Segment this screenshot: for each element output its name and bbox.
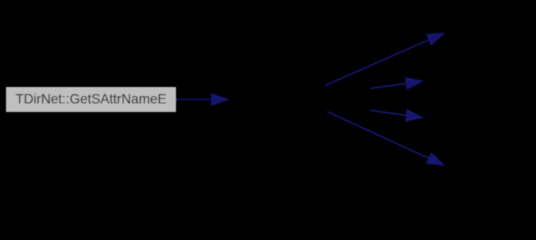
edge root to middle node — [176, 94, 228, 106]
node TDirNet::GetSAttrNameE (root node) — [6, 87, 176, 112]
edge middle node to callee 2 (shallow up) — [371, 78, 423, 90]
edge middle node to callee 1 (steep up) — [326, 33, 445, 85]
svg-text:TDirNet::GetSAttrNameE: TDirNet::GetSAttrNameE — [16, 91, 167, 107]
edge middle node to callee 3 (shallow down) — [371, 110, 423, 122]
edge middle node to callee 4 (steep down) — [327, 112, 444, 166]
